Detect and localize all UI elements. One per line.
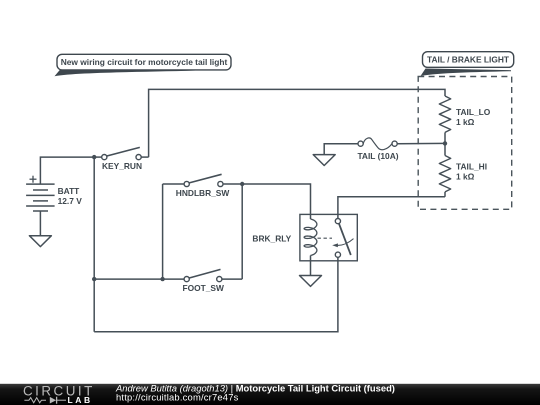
- node junction HNDLBR branch / FOOT row: [160, 277, 164, 281]
- wire battery positive to KEY_RUN junction: [40, 157, 94, 184]
- svg-text:HNDLBR_SW: HNDLBR_SW: [176, 188, 230, 198]
- wire TAIL_HI bottom to relay switch top: [338, 197, 445, 219]
- wire battery negative to ground: [39, 211, 41, 236]
- callout note: TAIL / BRAKE LIGHT: [421, 52, 514, 76]
- svg-text:TAIL_LO: TAIL_LO: [456, 107, 491, 117]
- main left vertical wire: [93, 157, 95, 332]
- wire fuse left terminal to ground: [324, 144, 358, 155]
- dashed enclosure box: [418, 77, 512, 210]
- relay BRK_RLY: [252, 214, 357, 260]
- svg-text:TAIL / BRAKE LIGHT: TAIL / BRAKE LIGHT: [427, 55, 510, 65]
- switch KEY_RUN: [94, 147, 148, 170]
- switch FOOT_SW: [183, 269, 243, 293]
- logo CIRCUIT LAB: [23, 384, 95, 405]
- svg-text:1 kΩ: 1 kΩ: [456, 172, 475, 182]
- footer bar: [0, 384, 540, 405]
- ground (battery): [29, 236, 51, 247]
- wire FOOT_SW row from left rail: [94, 278, 184, 280]
- resistor TAIL_HI: [439, 143, 487, 196]
- battery BATT: [26, 176, 82, 211]
- wire FOOT right branch vertical: [241, 184, 243, 279]
- svg-text:1 kΩ: 1 kΩ: [456, 117, 475, 127]
- node junction HNDLBR / FOOT right: [240, 182, 244, 186]
- svg-text:TAIL_HI: TAIL_HI: [456, 162, 487, 172]
- wire relay switch bottom to bottom rail: [94, 257, 338, 331]
- fuse TAIL (10A): [357, 138, 398, 161]
- svg-text:TAIL (10A): TAIL (10A): [357, 151, 398, 161]
- svg-text:LAB: LAB: [68, 395, 93, 405]
- callout note: New wiring circuit for motorcycle tail light: [55, 54, 232, 76]
- footer credit line: [115, 382, 395, 402]
- svg-text:12.7 V: 12.7 V: [58, 196, 83, 206]
- node junction left rail / FOOT_SW row: [92, 277, 96, 281]
- svg-text:New wiring circuit for motorcy: New wiring circuit for motorcycle tail l…: [61, 57, 228, 67]
- wire HNDLBR branch vertical: [162, 184, 164, 279]
- resistor TAIL_LO: [439, 96, 490, 143]
- svg-text:BRK_RLY: BRK_RLY: [252, 234, 291, 244]
- wire KEY_RUN to TAIL_LO top rail: [149, 89, 445, 157]
- node junction at KEY_RUN left: [92, 155, 96, 159]
- svg-text:KEY_RUN: KEY_RUN: [102, 161, 142, 171]
- ground (fuse): [313, 155, 335, 166]
- ground (relay): [300, 276, 322, 287]
- wire junction to relay coil top: [242, 184, 310, 219]
- node junction TAIL_LO / TAIL_HI / fuse: [443, 141, 447, 145]
- switch HNDLBR_SW: [163, 174, 243, 198]
- wire junction to fuse right terminal: [397, 142, 445, 144]
- svg-text:BATT: BATT: [58, 186, 81, 196]
- svg-text:FOOT_SW: FOOT_SW: [183, 283, 225, 293]
- svg-text:http://circuitlab.com/cr7e47s: http://circuitlab.com/cr7e47s: [116, 392, 239, 403]
- wire relay coil to ground: [310, 256, 312, 276]
